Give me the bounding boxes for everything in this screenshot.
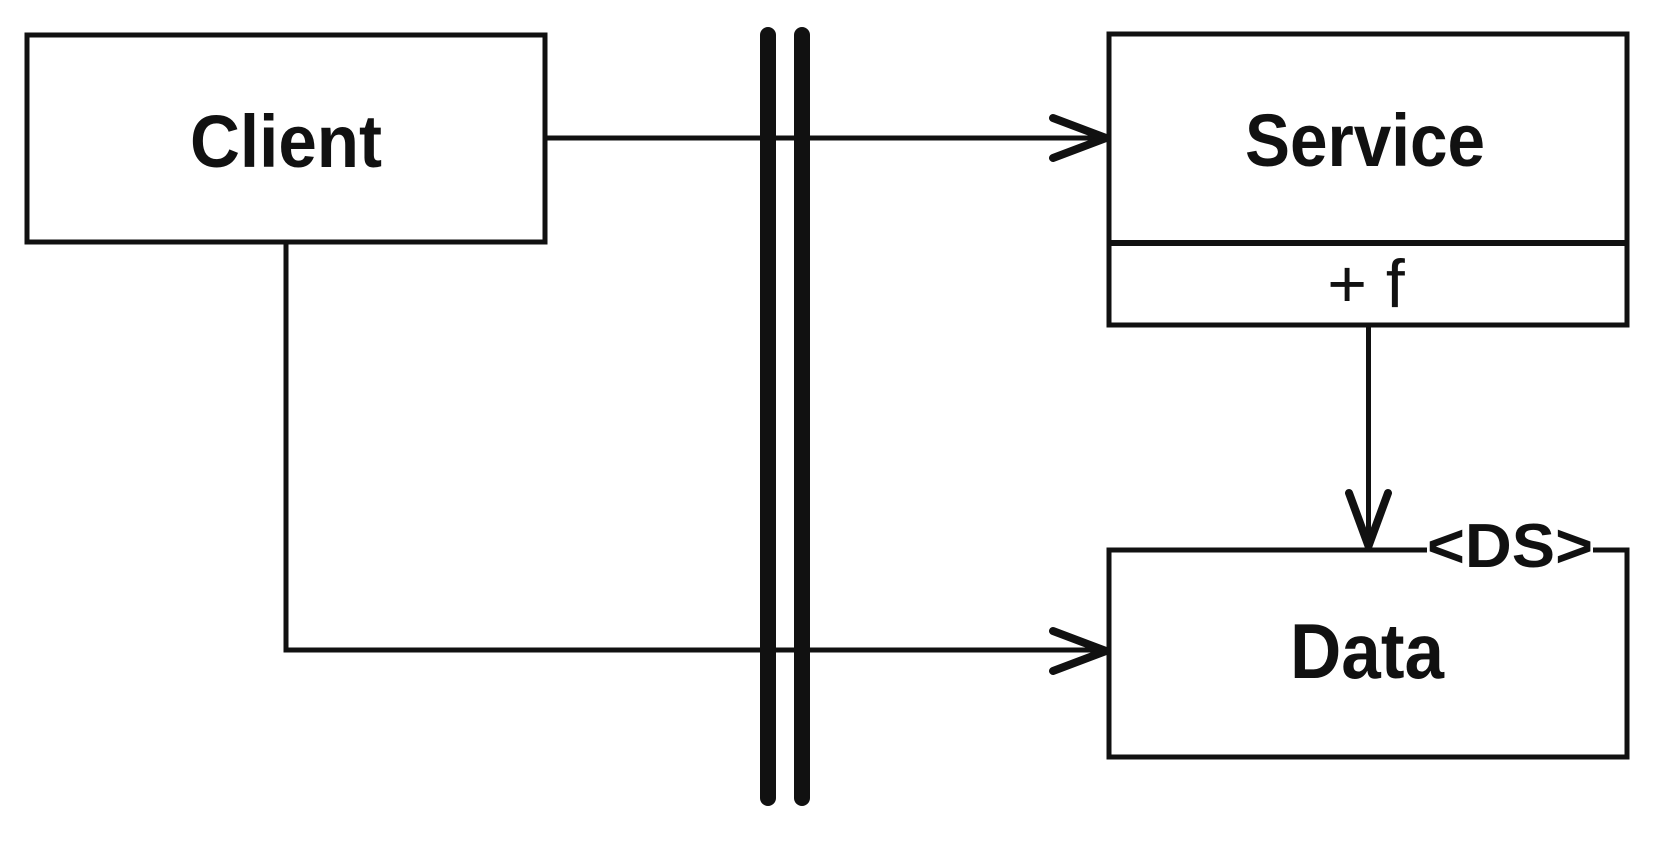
svg-text:Data: Data [1290,607,1445,695]
svg-text:<DS>: <DS> [1427,512,1593,581]
svg-text:+ f: + f [1327,246,1405,322]
svg-text:Client: Client [190,100,382,183]
svg-text:Service: Service [1245,99,1485,182]
